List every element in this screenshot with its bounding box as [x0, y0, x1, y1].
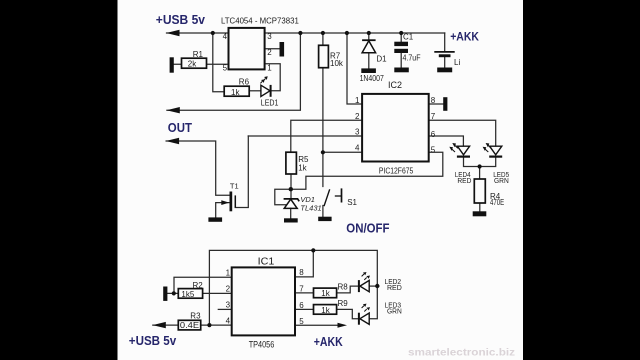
wire IC1 pin5 arrow line — [295, 324, 340, 326]
resistor R7 (vertical) — [319, 45, 329, 67]
wire IC1 top rail — [209, 250, 377, 325]
svg-text:4: 4 — [355, 144, 360, 153]
wire IC1 pin3 stub — [218, 308, 231, 310]
wire R1 to LTC pin5 — [174, 63, 229, 65]
wire R7 S1 vertical — [322, 33, 324, 187]
svg-text:4.7uF: 4.7uF — [403, 53, 421, 62]
svg-text:LED1: LED1 — [261, 98, 279, 107]
wire S1 lower lead to ground — [322, 206, 324, 217]
svg-text:R3: R3 — [190, 312, 201, 321]
svg-text:GRN: GRN — [387, 306, 402, 315]
node dot R3 pin4 — [207, 323, 211, 327]
svg-text:GRN: GRN — [494, 176, 509, 185]
svg-text:470E: 470E — [490, 198, 504, 207]
switch S1 — [324, 188, 342, 206]
connector bar at R1 — [170, 57, 174, 72]
svg-text:R1: R1 — [193, 50, 204, 59]
node dot LED2 cathode — [375, 284, 379, 288]
wire LED2 cathode to rail drop — [369, 285, 377, 287]
wire LTC pin1 to LED1 cathode — [265, 64, 281, 91]
resistor R8 — [314, 288, 337, 298]
svg-text:6: 6 — [299, 301, 304, 310]
battery Li — [434, 52, 454, 57]
svg-text:3: 3 — [226, 301, 231, 310]
wire +USB 5v top rail — [167, 32, 229, 34]
wire top rail right of LTC to battery corner — [265, 32, 445, 34]
ground under R4 — [473, 211, 487, 216]
svg-text:3: 3 — [267, 32, 272, 41]
svg-text:TP4056: TP4056 — [249, 339, 275, 349]
svg-text:RED: RED — [457, 176, 472, 185]
wire IC1 pin6 to R9 to LED3 — [295, 309, 358, 318]
svg-text:8: 8 — [431, 96, 436, 105]
wire LTC pin2 stub — [265, 48, 280, 50]
op-amp U2 IC2 PIC12F675 box — [362, 94, 429, 162]
connector bar at LTC pin2 — [280, 42, 285, 57]
svg-text:2k: 2k — [188, 60, 197, 69]
svg-text:8: 8 — [299, 268, 304, 277]
wire T1 source to ground — [216, 203, 230, 218]
svg-text:4: 4 — [223, 32, 228, 41]
svg-text:6: 6 — [431, 130, 436, 139]
svg-text:OUT: OUT — [168, 120, 192, 135]
svg-text:7: 7 — [431, 112, 436, 121]
ground under T1 — [208, 217, 222, 221]
svg-text:1N4007: 1N4007 — [360, 74, 385, 83]
node dot LED4 LED5 join — [478, 164, 482, 168]
svg-text:2: 2 — [355, 112, 360, 121]
wire TL431 anode to ground — [290, 208, 292, 218]
LED LED5 — [483, 143, 503, 157]
node dot IC2 pin4 S1 — [321, 150, 325, 154]
wire T1 gate to IC2 pin3 — [235, 136, 248, 208]
svg-text:+USB 5v: +USB 5v — [129, 333, 177, 348]
svg-text:C1: C1 — [403, 33, 414, 42]
wire usb bar to R2 to IC1 pin2 — [167, 292, 231, 294]
wire R4 to ground — [479, 203, 481, 211]
svg-text:1: 1 — [355, 96, 360, 105]
connector bar at R2 — [163, 287, 167, 301]
wire IC2 pin7 to LED5 — [429, 120, 496, 146]
ground under VD1 — [284, 218, 298, 222]
resistor R2 — [178, 289, 202, 299]
wire C1 branch — [400, 33, 402, 68]
wire R3 to IC1 pin4 — [153, 324, 232, 326]
svg-text:5: 5 — [431, 146, 436, 155]
wire IC1 pin8 riser — [295, 250, 313, 277]
svg-text:3: 3 — [355, 128, 360, 137]
svg-text:ON/OFF: ON/OFF — [346, 222, 390, 236]
resistor R9 — [314, 305, 337, 315]
node dot R2 input — [172, 291, 176, 295]
svg-text:1k: 1k — [321, 306, 330, 315]
svg-text:+AKK: +AKK — [450, 30, 479, 44]
capacitor C1 — [394, 42, 408, 53]
node dot rail at C1 — [399, 31, 403, 35]
wire D1 branch — [368, 33, 370, 68]
node dot IC1 top rail pin8 — [311, 248, 315, 252]
ground under C1 — [394, 68, 409, 73]
resistor R3 — [178, 320, 200, 330]
svg-text:1k: 1k — [231, 88, 240, 97]
wire IC1 pin1 to R2 node — [174, 277, 232, 293]
wire IC2 pin6 to LED4 — [429, 136, 464, 146]
wire R6 to LED1 anode — [249, 90, 261, 92]
svg-text:IC1: IC1 — [258, 256, 275, 267]
node dot rail at IC2 pin1 riser — [345, 31, 349, 35]
svg-text:T1: T1 — [230, 182, 239, 191]
LED LED1 — [260, 76, 270, 97]
svg-text:IC2: IC2 — [388, 80, 402, 91]
wire R5 bottom to TL431 node — [290, 174, 292, 199]
resistor R1 — [182, 58, 207, 68]
svg-text:RED: RED — [387, 283, 402, 292]
wire TL431 ref loop — [275, 189, 291, 205]
ground under Li — [437, 68, 452, 73]
svg-text:0.4E: 0.4E — [180, 321, 199, 330]
node dot rail at R1 riser — [211, 31, 215, 35]
svg-text:TL431: TL431 — [300, 204, 321, 213]
LED LED2 — [359, 272, 370, 292]
svg-text:R6: R6 — [239, 78, 250, 87]
svg-text:2: 2 — [226, 285, 231, 294]
ground under D1 — [361, 68, 376, 73]
svg-text:PIC12F675: PIC12F675 — [379, 167, 414, 176]
resistor R6 — [224, 86, 249, 96]
resistor R5 (vertical) — [286, 152, 297, 174]
svg-text:S1: S1 — [347, 198, 357, 207]
zener VD1 TL431 — [284, 199, 300, 209]
wire IC2 pin3 line — [248, 135, 362, 137]
op-amp U3 IC1 TP4056 box — [232, 267, 295, 335]
wire IC2 pin8 stub — [429, 103, 444, 105]
wire IC2 pin5 to TL431 node — [291, 152, 443, 189]
arrow +USB second rail — [167, 107, 180, 113]
svg-text:LTC4054 - MCP73831: LTC4054 - MCP73831 — [221, 16, 299, 25]
wire vertical from rail dot down to R6 — [213, 33, 224, 92]
svg-text:1: 1 — [267, 64, 272, 73]
svg-text:1k: 1k — [321, 289, 330, 298]
svg-text:R8: R8 — [338, 282, 349, 291]
op-amp U1 LTC4054 box — [229, 28, 265, 70]
transistor T1 (MOSFET) — [221, 192, 235, 212]
wire IC2 pin1 riser to top rail — [347, 33, 362, 104]
svg-text:R2: R2 — [193, 281, 204, 290]
arrow R3 +USB 5v bottom — [153, 322, 166, 328]
arrow +USB 5v top left — [166, 30, 179, 36]
svg-text:smartelectronic.biz: smartelectronic.biz — [408, 347, 515, 359]
LED LED4 — [449, 143, 470, 157]
ground under S1 — [318, 217, 331, 221]
wire IC2 pin4 to S1 net — [323, 151, 362, 153]
wire LED4 LED5 cathodes join to R4 — [464, 157, 496, 179]
connector bar at IC2 pin8 — [443, 97, 447, 111]
svg-text:4: 4 — [226, 317, 231, 326]
svg-text:+AKK: +AKK — [314, 334, 343, 349]
node dot rail at second rail riser — [298, 31, 302, 35]
arrow OUT rail — [166, 138, 179, 144]
svg-text:D1: D1 — [376, 54, 387, 63]
svg-text:2: 2 — [267, 48, 272, 57]
svg-text:R9: R9 — [338, 299, 349, 308]
svg-text:+USB 5v: +USB 5v — [156, 12, 206, 27]
resistor R4 (vertical) — [474, 179, 485, 203]
svg-text:1: 1 — [226, 269, 231, 278]
diode D1 1N4007 — [362, 40, 376, 53]
svg-text:10k: 10k — [330, 59, 344, 68]
node dot rail at D1 — [367, 31, 371, 35]
arrow IC1 pin5 +AKK — [338, 323, 348, 328]
svg-text:5: 5 — [299, 317, 304, 326]
svg-text:Li: Li — [454, 58, 460, 67]
wire Li battery branch — [444, 33, 446, 68]
svg-text:7: 7 — [299, 284, 304, 293]
node dot rail at R7 — [321, 31, 325, 35]
wire LED2 node down to LED3 cathode — [369, 286, 377, 319]
wire IC1 pin7 to R8 to LED2 — [295, 286, 358, 293]
wire OUT rail to T1 drain — [166, 141, 230, 195]
wire +USB second rail with riser — [167, 33, 301, 110]
svg-text:1k5: 1k5 — [181, 290, 194, 299]
node dot TL431 R5 junction — [289, 187, 293, 191]
svg-text:1k: 1k — [298, 163, 307, 172]
wire IC2 pin2 to R5 — [291, 120, 362, 152]
svg-text:5: 5 — [223, 64, 228, 73]
LED LED3 — [359, 304, 370, 325]
